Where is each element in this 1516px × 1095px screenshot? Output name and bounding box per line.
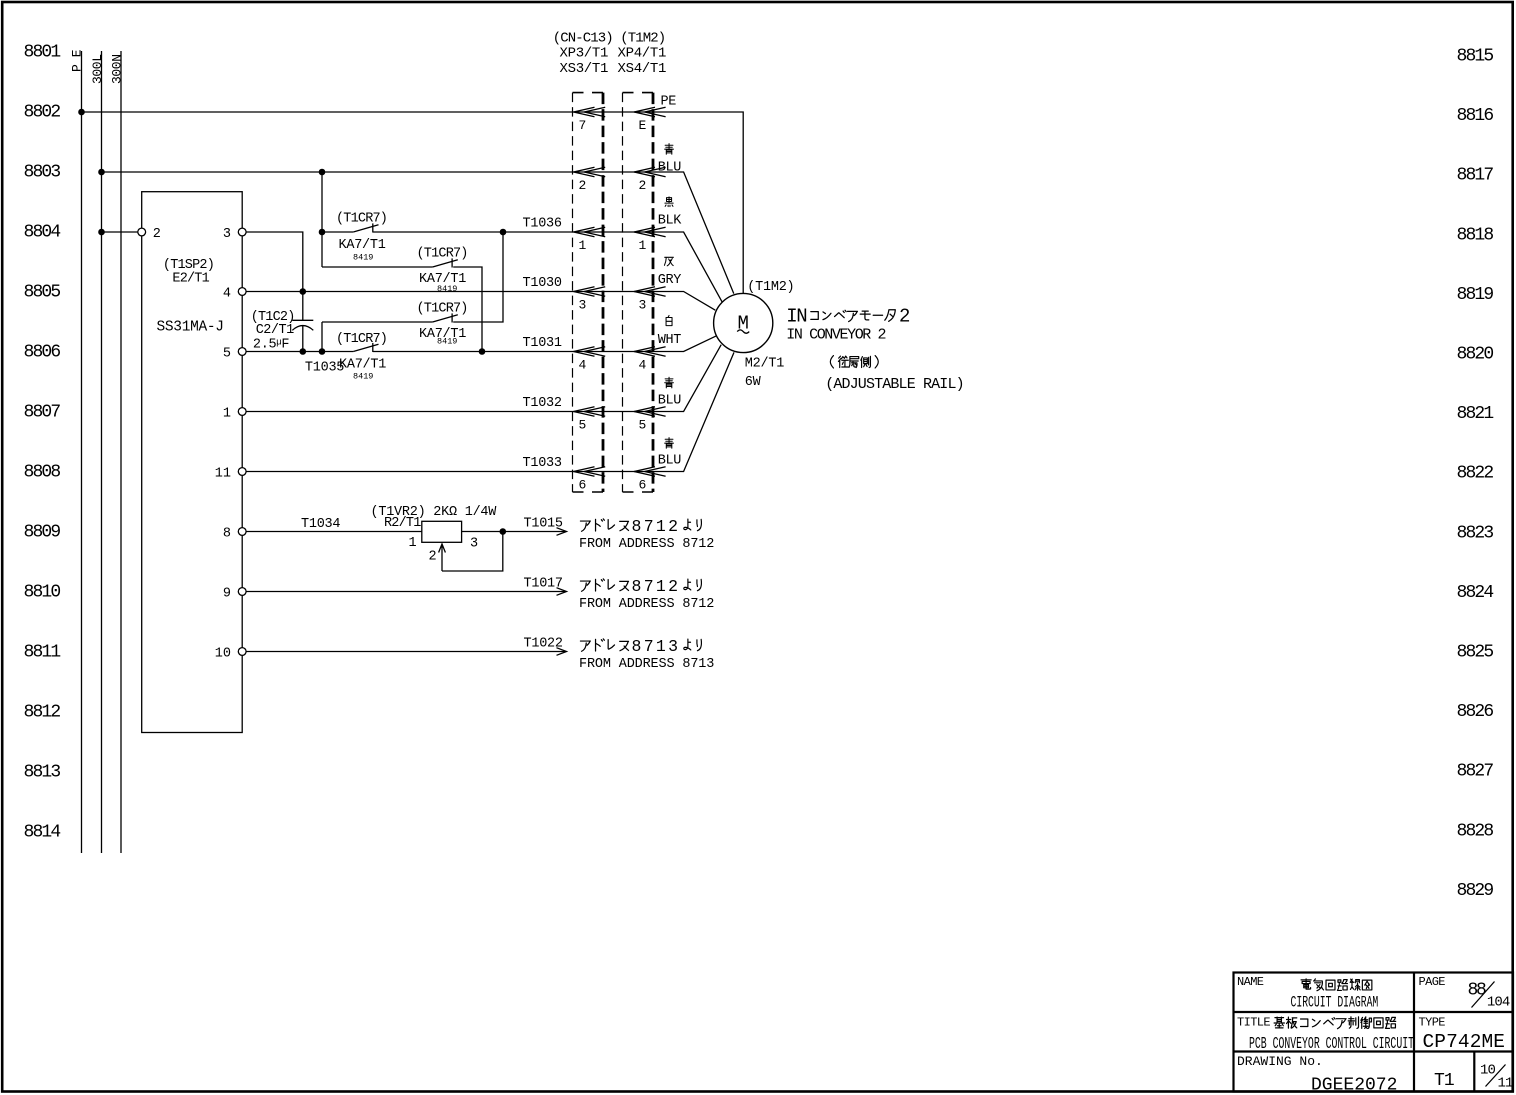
wire contact no.3 branch row	[322, 232, 503, 352]
svg-text:8419: 8419	[437, 284, 457, 294]
svg-text:8817: 8817	[1457, 166, 1494, 186]
pin 2 of E2/T1	[138, 227, 161, 242]
wire row 8802 PE to motor	[82, 112, 744, 293]
svg-text:8825: 8825	[1457, 643, 1494, 663]
svg-text:8814: 8814	[24, 823, 61, 843]
svg-text:8816: 8816	[1457, 106, 1494, 126]
svg-text:2: 2	[579, 178, 587, 193]
connector XP4/T1-XS4/T1 socket side dashed	[652, 93, 655, 492]
svg-text:3: 3	[470, 537, 478, 552]
svg-text:XS4/T1: XS4/T1	[618, 61, 667, 77]
connector B contact arrows row 8802	[634, 107, 666, 117]
connector B top cap	[623, 92, 654, 94]
right address column 8815-8829	[1457, 47, 1494, 901]
svg-text:BLU: BLU	[658, 161, 681, 176]
svg-text:8818: 8818	[1457, 225, 1494, 245]
svg-text:TYPE: TYPE	[1419, 1016, 1446, 1030]
page fraction slash	[1472, 982, 1495, 1008]
300N bus vertical line	[120, 51, 122, 853]
svg-text:88: 88	[1468, 980, 1487, 1000]
svg-text:2.5µF: 2.5µF	[253, 338, 290, 353]
svg-text:8808: 8808	[24, 463, 61, 483]
note from address 8712 (jp)	[580, 517, 701, 536]
svg-text:WHT: WHT	[658, 333, 681, 348]
svg-text:8419: 8419	[437, 337, 457, 347]
svg-text:TITLE: TITLE	[1237, 1016, 1270, 1030]
title jp circuit diagram	[1301, 979, 1372, 991]
junction node (101.5,232)	[98, 229, 105, 236]
svg-text:P E: P E	[70, 49, 85, 72]
svg-text:8821: 8821	[1457, 404, 1494, 424]
svg-text:T1033: T1033	[523, 456, 562, 471]
svg-text:T1022: T1022	[524, 636, 563, 651]
svg-text:(CN-C13) (T1M2): (CN-C13) (T1M2)	[553, 30, 666, 46]
label (adjustable-side) jp	[830, 356, 878, 368]
svg-text:XS3/T1: XS3/T1	[560, 61, 609, 77]
svg-text:8804: 8804	[24, 223, 61, 243]
wire contact no.2 branch to T1031 node	[322, 267, 482, 352]
connector A contact arrows row 8808	[574, 467, 606, 477]
svg-text:6W: 6W	[745, 375, 762, 390]
wire color kanji BLU	[665, 144, 674, 155]
svg-text:8813: 8813	[24, 763, 61, 783]
relay contact KA7/T1 no.4 (T1CR7)	[353, 343, 378, 352]
wire color kanji BLU	[665, 377, 674, 388]
svg-text:8828: 8828	[1457, 821, 1494, 841]
svg-text:4: 4	[639, 358, 647, 373]
wire row 8808 pin 11 to connector T1033 (BLU)	[246, 352, 734, 471]
svg-text:C2/T1: C2/T1	[256, 323, 294, 338]
wire color kanji WHT	[666, 315, 672, 325]
svg-text:(T1M2): (T1M2)	[747, 280, 794, 295]
relay contact KA7/T1 no.1 (T1CR7)	[353, 223, 378, 232]
pin 3 of E2/T1	[223, 227, 246, 242]
svg-text:1: 1	[409, 536, 417, 551]
svg-text:8805: 8805	[24, 283, 61, 303]
svg-text:8806: 8806	[24, 343, 61, 363]
svg-text:7: 7	[579, 118, 587, 133]
pin 1 of E2/T1	[223, 407, 246, 422]
svg-text:8826: 8826	[1457, 702, 1494, 722]
wire row 8805 pin 4 to connector T1030 (GRY)	[246, 292, 715, 311]
svg-text:10: 10	[1480, 1063, 1496, 1079]
pin 8 of E2/T1	[223, 527, 246, 542]
pin 4 of E2/T1	[223, 287, 246, 302]
svg-text:11: 11	[1498, 1076, 1514, 1092]
svg-text:5: 5	[639, 418, 647, 433]
svg-text:(T1CR7): (T1CR7)	[336, 212, 387, 227]
wire row 8807 pin 1 to connector T1032 (BLU)	[246, 345, 721, 412]
svg-text:KA7/T1: KA7/T1	[339, 238, 386, 253]
svg-text:T1035: T1035	[305, 361, 344, 376]
svg-text:PE: PE	[661, 94, 677, 109]
wire 300L to pin 2	[102, 231, 138, 233]
connector A contact arrows row 8803	[574, 167, 606, 177]
svg-text:IN CONVEYOR 2: IN CONVEYOR 2	[786, 327, 885, 344]
note from address 8713 (jp)	[580, 637, 701, 656]
svg-text:3: 3	[223, 227, 231, 242]
pin 9 of E2/T1	[223, 587, 246, 602]
left address column 8801-8814	[24, 43, 61, 843]
motor AC tilde	[737, 330, 749, 333]
arrow T1017	[557, 588, 567, 596]
svg-text:CIRCUIT DIAGRAM: CIRCUIT DIAGRAM	[1291, 993, 1379, 1011]
svg-text:8823: 8823	[1457, 523, 1494, 543]
potentiometer wiper arrow	[439, 544, 446, 571]
connector A bottom cap	[573, 491, 604, 493]
300L bus vertical line	[101, 51, 103, 853]
connector XP4/T1-XS4/T1 plug side dashed	[622, 93, 624, 492]
svg-text:2: 2	[153, 227, 161, 242]
svg-text:DGEE2072: DGEE2072	[1311, 1076, 1397, 1095]
junction node (502.8,531.5)	[500, 528, 507, 535]
svg-text:8827: 8827	[1457, 762, 1494, 782]
relay contact KA7/T1 no.2 (T1CR7)	[433, 258, 458, 267]
svg-text:T1030: T1030	[523, 276, 562, 291]
connector B contact arrows row 8807	[634, 407, 666, 417]
svg-text:FROM ADDRESS 8713: FROM ADDRESS 8713	[579, 657, 714, 672]
svg-text:T1036: T1036	[523, 217, 562, 232]
svg-text:BLK: BLK	[658, 214, 682, 229]
svg-text:8809: 8809	[24, 523, 61, 543]
label IN conveyor motor 2 (jp)	[786, 306, 910, 328]
svg-text:BLU: BLU	[658, 454, 681, 469]
svg-text:M2/T1: M2/T1	[745, 356, 784, 371]
connector B contact arrows row 8805	[634, 287, 666, 297]
motor M2/T1 (T1M2) circle	[714, 293, 773, 352]
svg-text:104: 104	[1487, 995, 1510, 1011]
connector XP3/T1-XS3/T1 socket side dashed	[602, 93, 605, 492]
svg-text:XP4/T1: XP4/T1	[618, 46, 667, 62]
svg-text:E: E	[639, 118, 647, 133]
svg-text:6: 6	[639, 478, 647, 493]
svg-text:FROM ADDRESS 8712: FROM ADDRESS 8712	[579, 537, 714, 552]
svg-text:8810: 8810	[24, 583, 61, 603]
junction node (81.5,112)	[78, 109, 85, 116]
svg-text:5: 5	[223, 347, 231, 362]
svg-text:(T1CR7): (T1CR7)	[417, 247, 468, 262]
connector XP3/T1-XS3/T1 plug side dashed	[572, 93, 574, 492]
title jp pcb conveyor control circuit	[1274, 1017, 1396, 1029]
svg-text:8801: 8801	[24, 43, 61, 63]
arrow T1022	[557, 648, 567, 656]
connector A contact arrows row 8804	[574, 227, 606, 237]
junction node (302.8,351.5)	[300, 348, 307, 355]
svg-text:GRY: GRY	[658, 273, 681, 288]
wire color kanji BLU	[665, 438, 674, 449]
svg-text:R2/T1: R2/T1	[384, 516, 421, 531]
junction node (101.5,172)	[98, 169, 105, 176]
wiper tie to terminal 3	[442, 532, 503, 572]
svg-text:IN: IN	[786, 306, 806, 328]
svg-text:9: 9	[223, 587, 231, 602]
connector B contact arrows row 8804	[634, 227, 666, 237]
junction node (482,351.5)	[479, 348, 486, 355]
svg-text:1: 1	[639, 238, 647, 253]
svg-text:8419: 8419	[353, 253, 373, 263]
svg-text:8803: 8803	[24, 163, 61, 183]
connector B contact arrows row 8806	[634, 347, 666, 357]
svg-text:3: 3	[639, 298, 647, 313]
junction node (322,172)	[319, 169, 326, 176]
svg-text:4: 4	[579, 358, 587, 373]
note from address 8712 (jp)	[580, 577, 701, 596]
svg-text:6: 6	[579, 478, 587, 493]
svg-text:(T1CR7): (T1CR7)	[417, 302, 468, 317]
wire node T1036: contact KA7 no.1 to connector (BLK)	[322, 232, 722, 302]
wire 300L row 8803 down to contact rail	[321, 172, 323, 267]
connector A contact arrows row 8807	[574, 407, 606, 417]
svg-text:300L: 300L	[90, 54, 105, 84]
junction node (503,232)	[500, 229, 507, 236]
speed controller U E2/T1 (T1SP2) SS31MA-J box	[142, 192, 243, 733]
svg-text:PCB CONVEYOR CONTROL CIRCUIT: PCB CONVEYOR CONTROL CIRCUIT	[1249, 1035, 1414, 1055]
svg-text:E2/T1: E2/T1	[172, 272, 209, 287]
svg-text:CP742ME: CP742ME	[1423, 1031, 1506, 1053]
svg-text:8822: 8822	[1457, 464, 1494, 484]
svg-text:2: 2	[429, 550, 437, 565]
junction node (322,232)	[319, 229, 326, 236]
capacitor C2/T1 (T1C2) 2.5uF	[292, 320, 313, 330]
svg-text:T1034: T1034	[301, 517, 340, 532]
svg-text:300N: 300N	[109, 54, 124, 84]
wire row 8803 300L to connector (BLU)	[102, 172, 734, 294]
svg-text:T1017: T1017	[524, 576, 563, 591]
connector A contact arrows row 8802	[574, 107, 606, 117]
svg-text:2: 2	[639, 178, 647, 193]
connector A contact arrows row 8806	[574, 347, 606, 357]
svg-text:10: 10	[215, 647, 231, 662]
title block frame	[1234, 973, 1514, 1093]
junction node (302.8,291.5)	[300, 288, 307, 295]
svg-text:8811: 8811	[24, 643, 61, 663]
connector A contact arrows row 8805	[574, 287, 606, 297]
svg-text:KA7/T1: KA7/T1	[339, 358, 386, 373]
wire row 8811 pin 10 to T1022	[246, 651, 566, 653]
PE bus vertical line	[81, 51, 83, 853]
svg-text:PAGE: PAGE	[1419, 975, 1446, 989]
svg-text:8824: 8824	[1457, 583, 1494, 603]
pin 10 of E2/T1	[215, 647, 246, 662]
svg-text:8812: 8812	[24, 703, 61, 723]
connector A top cap	[573, 92, 604, 94]
arrow T1015	[557, 528, 567, 536]
svg-text:8: 8	[223, 527, 231, 542]
pin 5 of E2/T1	[223, 347, 246, 362]
svg-text:T1: T1	[1434, 1071, 1454, 1091]
svg-text:8807: 8807	[24, 403, 61, 423]
junction node (322,351.5)	[319, 348, 326, 355]
wire capacitor C2 bottom lead	[302, 325, 304, 351]
svg-text:(ADJUSTABLE RAIL): (ADJUSTABLE RAIL)	[825, 376, 964, 393]
svg-text:8815: 8815	[1457, 47, 1494, 67]
relay contact KA7/T1 no.3 (T1CR7)	[433, 313, 458, 322]
sheet fraction slash	[1486, 1065, 1506, 1087]
svg-text:BLU: BLU	[658, 394, 681, 409]
wire row 8806 pin 5 to connector T1031 (WHT)	[246, 336, 716, 352]
wire color kanji BLK	[665, 197, 673, 207]
svg-text:T1031: T1031	[523, 336, 562, 351]
svg-text:(T1CR7): (T1CR7)	[336, 332, 387, 347]
svg-text:DRAWING No.: DRAWING No.	[1237, 1054, 1323, 1069]
svg-text:T1015: T1015	[524, 516, 563, 531]
svg-text:SS31MA-J: SS31MA-J	[157, 320, 224, 336]
wire color kanji GRY	[664, 257, 673, 266]
svg-text:8819: 8819	[1457, 285, 1494, 305]
svg-text:11: 11	[215, 467, 231, 482]
svg-text:NAME: NAME	[1237, 975, 1264, 989]
svg-text:4: 4	[223, 287, 231, 302]
svg-text:1: 1	[223, 407, 231, 422]
svg-text:8802: 8802	[24, 103, 61, 123]
svg-text:T1032: T1032	[523, 396, 562, 411]
svg-text:8829: 8829	[1457, 881, 1494, 901]
svg-text:2: 2	[899, 306, 910, 328]
connector B contact arrows row 8808	[634, 467, 666, 477]
potentiometer R2/T1 (T1VR2) 2K ohm body	[422, 521, 462, 542]
svg-text:5: 5	[579, 418, 587, 433]
svg-text:8419: 8419	[353, 372, 373, 382]
svg-text:1: 1	[579, 238, 587, 253]
wire pin 3 to capacitor C2	[246, 232, 303, 320]
svg-text:3: 3	[579, 298, 587, 313]
svg-text:FROM ADDRESS 8712: FROM ADDRESS 8712	[579, 597, 714, 612]
svg-text:8820: 8820	[1457, 345, 1494, 365]
connector B contact arrows row 8803	[634, 167, 666, 177]
wire row 8809 pin 8 via potentiometer R2 to T1015	[246, 531, 566, 533]
pin 11 of E2/T1	[215, 467, 246, 482]
connector B bottom cap	[623, 491, 654, 493]
wire row 8810 pin 9 to T1017	[246, 591, 566, 593]
svg-text:XP3/T1: XP3/T1	[560, 46, 609, 62]
